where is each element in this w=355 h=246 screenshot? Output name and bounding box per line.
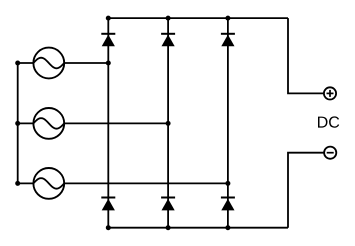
node phase A tap [106, 61, 111, 66]
diode D1 [101, 34, 115, 46]
wire top rail [108, 17, 288, 19]
node top rail col2 [166, 16, 171, 21]
node top rail col3 [225, 16, 230, 21]
wire left bus vertical [17, 63, 19, 183]
ac source V3 [33, 168, 64, 199]
ac source V2 [33, 108, 64, 139]
node bottom rail col2 [166, 225, 171, 230]
wire phase B horizontal [18, 122, 168, 124]
wire column 3 vertical [227, 18, 229, 228]
ac source V1 [33, 48, 64, 79]
diode D5 [161, 198, 175, 211]
diode D4 [101, 198, 115, 211]
wire column 2 vertical [167, 18, 169, 228]
node phase B tap [166, 121, 171, 126]
label DC [318, 116, 339, 127]
node bottom rail col3 [225, 225, 230, 230]
node bottom rail col1 [106, 225, 111, 230]
diode D2 [161, 34, 175, 46]
wire phase C horizontal [18, 182, 228, 184]
node bus phase C [15, 181, 20, 186]
wire phase A horizontal [18, 62, 109, 64]
node bus phase A [15, 61, 20, 66]
diode D6 [221, 198, 235, 211]
node bus phase B [15, 121, 20, 126]
wire column 1 vertical [107, 18, 109, 228]
wire right vertical to minus [288, 153, 324, 228]
wire right vertical to plus [288, 18, 324, 93]
wire bottom rail [108, 227, 288, 229]
terminal - [324, 147, 336, 159]
diode D3 [221, 34, 235, 46]
node phase C tap [225, 181, 230, 186]
node top rail col1 [106, 16, 111, 21]
terminal + [324, 87, 336, 99]
